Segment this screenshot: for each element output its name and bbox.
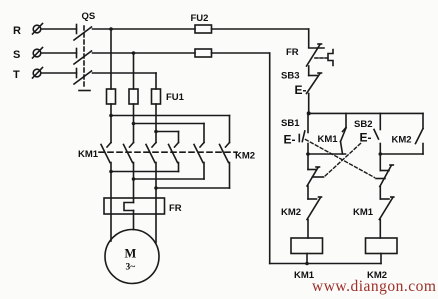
wire main line 2 upper (133, 53, 135, 89)
svg-text:R: R (13, 25, 21, 37)
wire main line 1 upper (110, 29, 112, 89)
fuse FU2-2 (195, 49, 212, 57)
button SB1 NC contact in right branch (380, 170, 389, 172)
svg-text:FR: FR (169, 203, 182, 214)
fuse FU2-1 (195, 25, 212, 33)
contactor KM2 NC interlock contact (308, 198, 317, 200)
svg-text:FR: FR (286, 47, 299, 58)
wire control top rail (309, 112, 423, 114)
svg-text:SB1: SB1 (281, 118, 300, 129)
node junction R (109, 27, 113, 31)
relay FR heater box (104, 198, 165, 214)
svg-text:KM1: KM1 (318, 134, 339, 145)
wire line2 through FR to motor (133, 211, 135, 230)
wire main line 1 to KM1 contact (110, 104, 112, 143)
relay FR NC contact (309, 47, 324, 49)
svg-text:QS: QS (82, 11, 96, 22)
node junction bottom rail (305, 262, 309, 266)
wire left branch to button NC (307, 154, 309, 170)
wire R FU2 to control (212, 28, 309, 30)
switch QS linkage end bar (79, 90, 90, 92)
wire R to QS (41, 28, 77, 30)
wire right branch to coil (379, 220, 381, 239)
terminal S (33, 49, 41, 57)
switch QS pole 3 (76, 69, 78, 78)
node junction S (132, 51, 136, 55)
wire T to QS (41, 72, 77, 74)
svg-text:KM1: KM1 (78, 149, 99, 160)
button SB2 NC contact in left branch (308, 169, 317, 171)
wire feed T to KM2 pole 1 (156, 131, 179, 133)
svg-text:FU1: FU1 (166, 92, 185, 103)
wire S QS to FU2 (93, 52, 196, 54)
contactor KM1 main pole 2 (130, 143, 134, 148)
wire main line 2 lower (133, 163, 135, 203)
wire KM2 pole3 out to line3 (229, 163, 231, 189)
svg-text:M: M (125, 247, 137, 261)
wire control drop from R (308, 29, 310, 48)
wire feed R to KM2 pole 3 (111, 115, 230, 117)
contactor KM2 main pole 2 (200, 143, 204, 148)
contactor linkage dashed (99, 151, 237, 153)
fuse FU1-2 (129, 89, 138, 104)
wire S FU2 to left rail (212, 52, 270, 54)
wire FR to SB3 (308, 66, 310, 76)
wire left branch to coil (307, 220, 309, 239)
node junction SB1 bottom (306, 152, 310, 156)
wire main line 1 lower (110, 163, 112, 242)
wire feed S to KM2 pole 2 (134, 123, 205, 125)
button SB1 NO contact (307, 113, 309, 132)
wire S to QS (41, 52, 77, 54)
svg-text:E-: E- (284, 133, 296, 147)
terminal T (33, 69, 41, 77)
svg-text:E-: E- (295, 83, 307, 97)
wire main line 3 to KM1 contact (155, 104, 157, 143)
wire left branch mid (307, 186, 309, 199)
wire main line 3 upper (155, 73, 157, 89)
wire main line 3 lower (155, 163, 157, 243)
wire left rail (269, 53, 271, 264)
node junction out3 (154, 186, 158, 190)
relay FR heater jog (124, 203, 134, 211)
coil KM1 (291, 238, 323, 254)
interlock dashed SB1 to right NC (306, 140, 375, 178)
switch QS pole 1 (76, 25, 78, 34)
svg-text:www.diangon.com: www.diangon.com (312, 278, 436, 295)
node junction feed3 (154, 130, 158, 134)
contactor KM1 aux NO contact (345, 113, 347, 127)
switch QS pole 2 (76, 49, 78, 58)
wire coil KM1 to bottom rail (306, 254, 308, 264)
contactor KM1 main pole 3 (152, 143, 156, 148)
wire KM2 pole2 out to line2 (203, 163, 205, 180)
fuse FU1-1 (107, 89, 116, 104)
wire bottom rail (270, 263, 381, 265)
interlock dashed SB2 to left NC (325, 144, 361, 177)
node rail junction (307, 111, 311, 115)
wire coil KM2 to bottom rail (380, 254, 382, 264)
motor M1 (105, 230, 159, 284)
svg-text:KM1: KM1 (353, 207, 374, 218)
coil KM2 (366, 238, 398, 254)
svg-text:E-: E- (360, 131, 372, 145)
wire SB3 to rail (308, 94, 310, 114)
contactor KM1 NC interlock contact (380, 198, 389, 200)
svg-text:S: S (13, 49, 20, 61)
contactor KM2 main pole 3 (226, 143, 230, 148)
svg-text:SB3: SB3 (281, 71, 299, 82)
node junction feed2 (132, 122, 136, 126)
contactor KM1 main pole 1 (107, 143, 111, 148)
contactor KM2 aux NO contact (422, 113, 424, 128)
node junction feed1 (109, 114, 113, 118)
wire main line 2 to KM1 contact (133, 104, 135, 143)
wire R QS to FU2 (93, 28, 196, 30)
svg-text:T: T (13, 69, 20, 81)
wire pair bottom right (380, 153, 423, 155)
wire T QS to main line 3 (93, 72, 157, 74)
wire SB2 lower (379, 144, 381, 155)
node junction out1 (109, 170, 113, 174)
button SB2 NO contact (379, 113, 381, 129)
fuse FU1-3 (152, 89, 161, 104)
node junction out2 (132, 177, 136, 181)
svg-text:SB2: SB2 (354, 119, 372, 130)
wire SB1 lower (307, 144, 309, 155)
relay FR trip symbol (328, 50, 333, 66)
svg-text:KM2: KM2 (281, 207, 301, 218)
terminal R (33, 25, 41, 33)
contactor KM2 main pole 1 (175, 143, 179, 148)
switch QS linkage dashed (83, 26, 85, 89)
svg-text:KM2: KM2 (235, 151, 255, 162)
wire right branch mid (379, 187, 381, 200)
wire right branch to button NC (379, 154, 381, 171)
button SB3 NC contact (309, 75, 318, 77)
svg-text:KM2: KM2 (392, 135, 412, 146)
svg-text:3~: 3~ (126, 263, 136, 273)
node junction SB2 bottom (379, 152, 383, 156)
wire pair bottom left (307, 153, 346, 155)
wire KM2 pole1 out to line1 (178, 163, 180, 172)
svg-text:FU2: FU2 (191, 13, 209, 24)
relay FR trip dashed link (315, 57, 328, 59)
